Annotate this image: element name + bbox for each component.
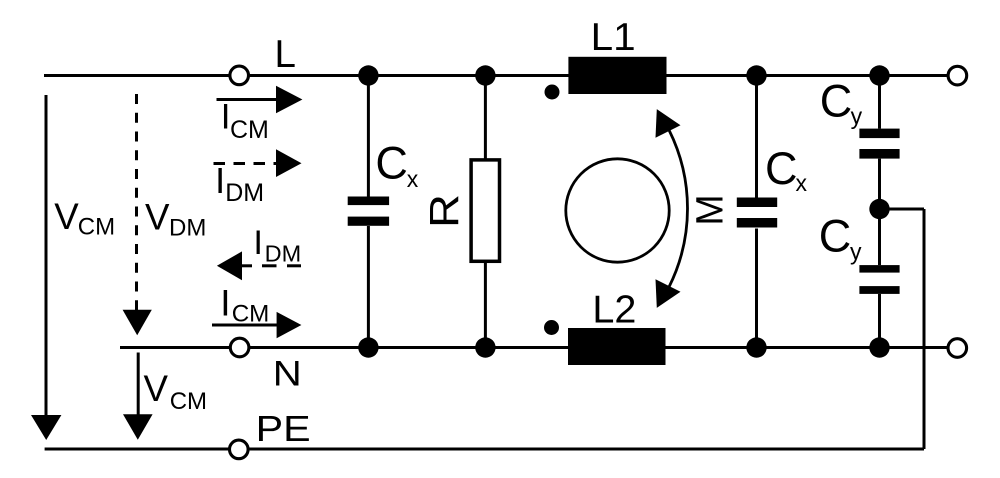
wire R lower branch: [484, 261, 487, 348]
svg-text:V: V: [145, 197, 170, 238]
wire Cy top branch: [878, 76, 881, 129]
svg-text:M: M: [690, 195, 732, 226]
svg-text:CM: CM: [78, 214, 115, 241]
svg-text:y: y: [850, 238, 862, 264]
wire Cx1 lower branch: [367, 226, 370, 348]
wire N line main segment: [250, 346, 947, 349]
node VCM2 measurement line: [137, 353, 140, 415]
svg-text:V: V: [54, 196, 79, 237]
wire Cy midpoint to right vertical: [880, 208, 925, 211]
capacitor Cx2 plates: [737, 198, 777, 208]
node IDM mid dashed arrow pointing left: [242, 264, 301, 267]
svg-text:CM: CM: [230, 116, 269, 144]
junction node Cx1 top: [358, 65, 378, 85]
wire Cx2 upper branch: [755, 76, 758, 199]
polarity dot L1: [545, 85, 560, 100]
node ICM top arrow: [217, 98, 278, 101]
terminal N input: [230, 338, 249, 357]
junction node Cy midpoint: [869, 199, 889, 219]
svg-text:V: V: [144, 368, 169, 409]
svg-text:C: C: [820, 75, 853, 126]
terminal N output: [948, 339, 967, 358]
wire Cx2 lower branch: [755, 229, 758, 348]
inductor L1 body: [568, 57, 666, 94]
svg-text:CM: CM: [232, 300, 270, 327]
terminal PE input: [230, 440, 249, 459]
wire PE line main segment: [249, 448, 924, 451]
junction node Cx2 bottom: [746, 337, 766, 357]
svg-text:CM: CM: [170, 388, 207, 415]
svg-text:N: N: [273, 353, 302, 393]
node VCM arrowhead: [31, 415, 61, 440]
choke core circle: [566, 159, 669, 262]
inductor L2 body: [568, 328, 666, 365]
terminal L input: [230, 66, 249, 85]
svg-text:L1: L1: [591, 16, 636, 59]
svg-text:C: C: [375, 137, 408, 188]
resistor R body: [471, 160, 499, 261]
svg-text:y: y: [851, 103, 863, 129]
svg-text:DM: DM: [225, 179, 264, 207]
junction node Cx1 bottom: [358, 337, 378, 357]
svg-text:PE: PE: [256, 408, 311, 449]
capacitor Cx1 plates: [348, 197, 389, 206]
junction node Cy bottom: [869, 337, 889, 357]
node ICM bottom arrow: [212, 324, 277, 327]
svg-text:I: I: [220, 282, 230, 323]
wire PE line left segment: [45, 448, 229, 451]
junction node Cx2 top: [746, 65, 766, 85]
polarity dot L2: [544, 320, 559, 335]
capacitor Cy bottom plates: [859, 265, 899, 273]
svg-text:R: R: [421, 194, 467, 228]
svg-text:L: L: [275, 33, 296, 76]
node VDM arrowhead: [123, 310, 152, 335]
node VCM measurement line: [45, 95, 48, 416]
node IDM top dashed arrow: [214, 162, 279, 165]
svg-text:DM: DM: [169, 214, 206, 241]
terminal L output: [948, 66, 967, 85]
svg-text:C: C: [765, 143, 798, 194]
svg-text:C: C: [819, 211, 852, 262]
wire L line left segment: [44, 74, 229, 77]
wire N line left segment: [120, 346, 230, 349]
svg-text:I: I: [215, 160, 225, 201]
junction node Cy top: [869, 65, 889, 85]
node VDM dashed measurement line: [135, 94, 138, 310]
junction node R top: [475, 65, 495, 85]
svg-text:DM: DM: [265, 240, 302, 266]
junction node R bottom: [475, 337, 495, 357]
wire R upper branch: [484, 76, 487, 161]
wire Cx1 upper branch: [367, 76, 370, 197]
mutual coupling arc M: [669, 130, 687, 287]
svg-text:x: x: [796, 170, 808, 196]
capacitor Cy top plates: [859, 129, 899, 139]
wire L line main segment: [249, 74, 947, 77]
node VCM2 arrowhead: [123, 414, 153, 440]
svg-text:x: x: [407, 166, 419, 192]
wire right vertical down to PE: [923, 209, 926, 449]
wire Cy middle branch: [878, 159, 881, 266]
svg-text:I: I: [253, 224, 263, 262]
wire Cy bottom branch: [878, 294, 881, 348]
svg-text:L2: L2: [592, 289, 636, 332]
